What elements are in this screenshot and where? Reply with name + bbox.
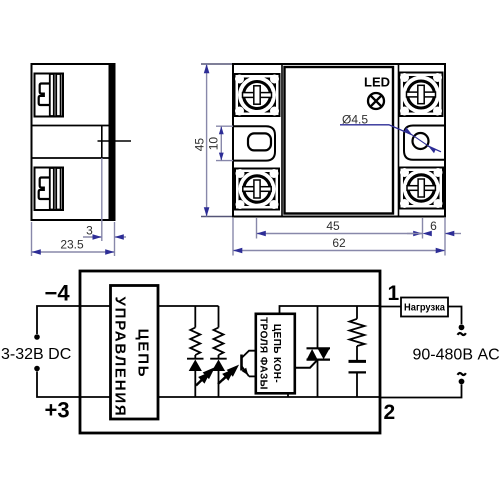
- dimension extension right edge: [114, 222, 116, 256]
- wire: [356, 346, 358, 360]
- dimension 10: extensions: [216, 125, 233, 127]
- dimension 45 vertical: extensions: [201, 63, 232, 65]
- wire: [356, 374, 358, 398]
- branch 1 wire: [194, 306, 196, 328]
- snubber wire top: [356, 306, 358, 319]
- LED D1 cathode bar: [187, 358, 204, 360]
- hole leader tail: [428, 146, 441, 152]
- plate edge line: [101, 126, 103, 159]
- resistor R1: [190, 328, 200, 356]
- left terminal recess: [233, 126, 275, 160]
- wire to control box bottom: [80, 396, 110, 398]
- bottom dims extensions: [256, 218, 258, 239]
- bottom terminal screw bar 1: [50, 168, 54, 210]
- load box: [401, 298, 448, 317]
- AC node dot top: [459, 324, 465, 330]
- screw BL: [235, 169, 279, 210]
- branch 2 wire: [218, 306, 220, 328]
- wire load to AC top: [448, 307, 462, 325]
- top view body outline: [233, 64, 445, 217]
- triac VS1 bottom bar: [307, 359, 331, 361]
- wire U2 top riser: [280, 306, 381, 314]
- right hole circle: [413, 133, 429, 149]
- wire: [218, 355, 220, 359]
- triac VS1 top bar: [307, 347, 331, 349]
- dimension 23.5 arrow left: [32, 249, 41, 255]
- bottom terminal block: [35, 168, 64, 211]
- LED D2 cathode bar: [210, 358, 227, 360]
- svg-text:−4: −4: [45, 281, 71, 306]
- relay outline box: [80, 271, 380, 433]
- right column edge: [398, 64, 400, 217]
- dimension 3 line: [83, 236, 102, 238]
- housing section line lower: [32, 157, 109, 159]
- svg-text:90-480В AC: 90-480В AC: [413, 347, 500, 364]
- triac VS1 triangle up: [307, 349, 318, 359]
- dimension extension left edge: [31, 222, 33, 256]
- svg-text:1: 1: [388, 282, 400, 305]
- bottom terminal contact E: [39, 178, 50, 200]
- hole leader arrow 1: [405, 127, 413, 135]
- snubber resistor R3: [350, 319, 365, 346]
- screw BR: [400, 168, 444, 209]
- svg-text:2: 2: [384, 401, 396, 424]
- svg-text:3: 3: [86, 224, 93, 238]
- LED D1 triangle: [189, 360, 202, 372]
- top terminal screw bar 2: [56, 74, 60, 116]
- dimension 3 arrow left: [93, 234, 102, 240]
- svg-text:45: 45: [193, 138, 207, 152]
- dimension 23.5 arrow right: [105, 249, 114, 255]
- dimension 3 arrow right: [115, 234, 124, 240]
- left oval hole: [248, 133, 271, 150]
- screw TR: [400, 73, 443, 117]
- dimension 62 line: [233, 250, 445, 252]
- hole leader through line: [412, 135, 429, 147]
- control circuit box U1: [111, 286, 159, 420]
- hole leader line: [340, 125, 412, 135]
- triac VS1 main wire bottom: [317, 360, 319, 397]
- Q1 collector: [242, 351, 256, 358]
- svg-text:62: 62: [332, 236, 346, 250]
- top terminal screw bar 1: [50, 74, 54, 116]
- capacitor C1 bottom plate: [349, 371, 367, 373]
- base plate (black bar): [109, 64, 116, 221]
- wire to control box top: [80, 305, 110, 307]
- node dot input top: [34, 334, 40, 340]
- dimension 23.5 line: [32, 251, 115, 253]
- svg-text:23.5: 23.5: [60, 238, 84, 252]
- dimension 10 arrows: [219, 126, 224, 134]
- top terminal contact E: [39, 84, 50, 106]
- wire: [194, 355, 196, 359]
- wire: [194, 371, 196, 397]
- svg-text:45: 45: [326, 219, 340, 233]
- bottom terminal screw bar 2: [56, 168, 60, 210]
- resistor R2: [214, 328, 224, 356]
- dimension 45 bottom line: [257, 233, 423, 235]
- svg-text:LED: LED: [364, 75, 390, 90]
- LED symbol: [368, 93, 384, 109]
- bottom rail: [158, 396, 380, 398]
- phase control box U2: [256, 314, 295, 394]
- Q1 emitter with arrow: [242, 366, 250, 376]
- AC node dot bottom: [459, 379, 465, 385]
- svg-text:6: 6: [430, 219, 437, 233]
- central body square: [285, 67, 394, 214]
- hole leader arrow 2: [428, 146, 436, 154]
- dimension 6 arrows (outside): [407, 233, 423, 235]
- svg-text:+3: +3: [45, 398, 70, 423]
- wire AC bottom: [380, 385, 462, 398]
- triac VS1 triangle down: [318, 349, 330, 359]
- LED D2 emission arrows: [218, 367, 237, 384]
- housing section line upper: [32, 125, 109, 127]
- leader line on plate: [98, 140, 132, 142]
- dimension 45 vertical arrows: [204, 64, 210, 73]
- dimension 45 bottom arrows: [257, 231, 266, 237]
- optocoupler phototransistor Q1 base bar: [240, 355, 243, 371]
- screw TL: [235, 74, 280, 116]
- LED D2 triangle: [212, 360, 225, 372]
- AC tilde bottom: [458, 373, 466, 375]
- dimension 10 line: [220, 126, 222, 160]
- top terminal block: [35, 74, 64, 117]
- wire input top: [37, 306, 80, 334]
- LED D1 emission arrows: [196, 370, 213, 386]
- dimension 45 vertical line: [206, 64, 208, 217]
- dimension 62 arrows: [233, 248, 242, 254]
- svg-text:Нагрузка: Нагрузка: [404, 302, 445, 314]
- AC tilde top: [458, 333, 466, 335]
- side view body outline: [32, 64, 115, 220]
- left column edge: [281, 64, 283, 217]
- node dot input bottom: [34, 366, 40, 372]
- wire input bottom: [37, 372, 80, 398]
- wire: [218, 371, 220, 397]
- svg-text:10: 10: [207, 137, 221, 151]
- dimension 3 extension line: [101, 158, 103, 241]
- capacitor C1 top plate: [349, 360, 367, 363]
- wire to load: [380, 306, 401, 308]
- wire U2 bottom: [287, 394, 289, 398]
- top rail left: [158, 305, 219, 307]
- triac gate wire: [295, 360, 318, 368]
- right terminal recess: [404, 126, 445, 160]
- svg-text:3-32В DC: 3-32В DC: [1, 346, 71, 363]
- triac VS1 main wire top: [317, 306, 319, 348]
